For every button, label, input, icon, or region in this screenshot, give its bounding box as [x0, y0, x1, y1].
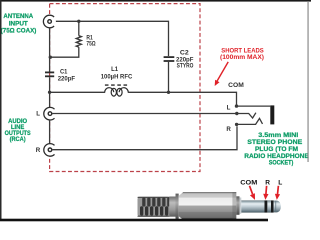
node plug L dot: [235, 112, 238, 115]
wire: R1 branch down: [78, 21, 80, 35]
svg-text:(RCA): (RCA): [10, 136, 26, 143]
svg-text:STEREO PHONE: STEREO PHONE: [247, 139, 302, 146]
label ANTENNA INPUT (75ohm COAX): [1, 13, 37, 35]
wire: C1 bottom to COM line and down to L connector: [49, 77, 51, 107]
wire: left column antenna shell down to C1: [49, 28, 51, 72]
node plug COM dot: [235, 104, 238, 107]
svg-text:R: R: [265, 179, 270, 186]
capacitor C1: [45, 72, 54, 76]
node junction on top wire: [77, 20, 80, 23]
svg-text:ANTENNA: ANTENNA: [3, 13, 33, 20]
photo plug sleeve base ring: [236, 196, 239, 215]
photo arrow L: [275, 186, 280, 200]
svg-text:L: L: [278, 179, 282, 186]
photo plug neck: [169, 197, 175, 217]
wire: L line: [53, 113, 237, 115]
node junction C1/COM line: [48, 91, 51, 94]
svg-text:INPUT: INPUT: [9, 20, 28, 27]
antenna input connector (RCA socket): [43, 15, 56, 28]
svg-text:(75Ω COAX): (75Ω COAX): [1, 28, 37, 35]
svg-text:(100mm MAX): (100mm MAX): [220, 54, 264, 61]
svg-text:75Ω: 75Ω: [86, 41, 96, 48]
capacitor C2: [164, 57, 175, 61]
label 3.5mm MINI STEREO PHONE PLUG: [244, 132, 309, 167]
label C2 220pF STYRO: [176, 49, 193, 69]
node junction C2/COM: [167, 91, 170, 94]
svg-text:COM: COM: [240, 179, 258, 186]
plug body bar: [270, 105, 274, 124]
photo plug insulator ring 2: [271, 200, 274, 212]
svg-text:100µH RFC: 100µH RFC: [101, 73, 133, 80]
wire: C2 bottom to COM junction: [168, 62, 170, 92]
wire: R line with jog up: [53, 126, 238, 150]
svg-text:L1: L1: [111, 66, 118, 73]
label C1 220pF: [58, 69, 75, 83]
node junction R1/left column: [49, 56, 52, 59]
jack contact L (tip): [237, 113, 256, 118]
label AUDIO LINE OUTPUTS (RCA): [5, 118, 31, 143]
resistor R1: [76, 36, 81, 47]
wire: COM line right segment: [128, 92, 236, 104]
svg-text:L: L: [227, 105, 231, 112]
short leads arrow: [215, 62, 229, 86]
svg-text:COM: COM: [228, 82, 244, 89]
photo plug sleeve shaft (COM): [241, 200, 264, 212]
photo plug boot ribs row1: [142, 197, 170, 206]
photo arrow COM: [250, 186, 256, 200]
svg-text:SOCKET): SOCKET): [269, 160, 294, 167]
photo plug hex barrel: [179, 192, 237, 220]
photo arrow R: [263, 186, 268, 200]
photo plug insulator ring 1: [265, 200, 268, 212]
inductor L1: [105, 85, 129, 96]
wire: left column between L and R connectors: [49, 120, 51, 144]
label L1 100uH RFC: [101, 66, 133, 80]
svg-text:R: R: [226, 126, 231, 133]
dashed shielding box (short leads boundary): [50, 4, 200, 172]
photo plug boot ribs row2: [140, 206, 168, 215]
node plug R dot: [235, 123, 238, 126]
jack contact R (ring): [237, 118, 263, 124]
svg-text:R: R: [36, 147, 41, 154]
svg-text:3.5mm MINI: 3.5mm MINI: [258, 132, 298, 139]
svg-text:L: L: [36, 111, 40, 118]
wire: R1 bottom to left column: [50, 47, 79, 57]
photo plug tip (L): [274, 201, 281, 213]
photo plug boot base: [138, 197, 170, 217]
photo plug ring contact (R): [267, 200, 271, 212]
svg-text:C2: C2: [180, 49, 189, 56]
label R1 75ohm: [86, 35, 96, 48]
RCA connector L: [44, 107, 57, 120]
RCA connector R: [44, 144, 57, 157]
label SHORT LEADS (100mm MAX): [220, 47, 264, 61]
wire: COM line left segment: [50, 91, 105, 93]
photo: 3.5mm plug: [138, 192, 281, 220]
photo plug collar ring: [176, 194, 179, 220]
svg-text:220pF: 220pF: [58, 75, 75, 82]
wire: antenna pin to C2 top: [52, 21, 168, 56]
svg-text:PLUG (TO FM: PLUG (TO FM: [255, 146, 298, 153]
svg-text:STYRO: STYRO: [177, 62, 194, 69]
wire: COM to plug sleeve: [237, 105, 271, 107]
